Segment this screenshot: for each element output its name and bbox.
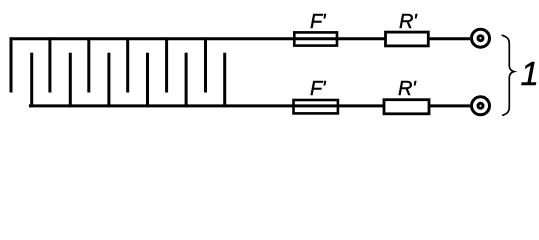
fuse F' bottom (294, 100, 338, 113)
comb finger bottom 3 (107, 53, 110, 108)
svg-text:F': F' (310, 78, 327, 100)
brace (502, 35, 514, 115)
comb finger bottom 2 (69, 53, 72, 108)
interdigital transducer electrode (comb) (10, 37, 471, 107)
wire bottom bus / rail (29, 104, 385, 107)
svg-text:1: 1 (521, 55, 539, 92)
svg-text:R': R' (398, 78, 417, 100)
wire top after resistor (428, 37, 470, 40)
comb finger bottom 4 (146, 53, 149, 108)
comb finger top 3 (87, 37, 90, 92)
terminal bottom (472, 97, 490, 115)
terminal top (472, 29, 490, 47)
comb finger top 2 (48, 37, 51, 92)
resistor R' top (386, 32, 429, 46)
comb finger top 6 (204, 37, 207, 92)
resistor R' bottom (384, 100, 429, 114)
wire top bus / rail (10, 37, 386, 40)
comb finger top 4 (126, 37, 129, 92)
comb finger bottom 6 (223, 53, 226, 108)
comb finger top 5 (165, 37, 168, 92)
comb finger bottom 5 (185, 53, 188, 108)
wire bottom after resistor (429, 104, 470, 107)
comb finger top 1 (10, 37, 13, 92)
svg-text:R': R' (399, 11, 418, 33)
fuse F' top (294, 32, 337, 45)
comb finger bottom 1 (30, 53, 33, 108)
svg-text:F': F' (310, 11, 327, 33)
